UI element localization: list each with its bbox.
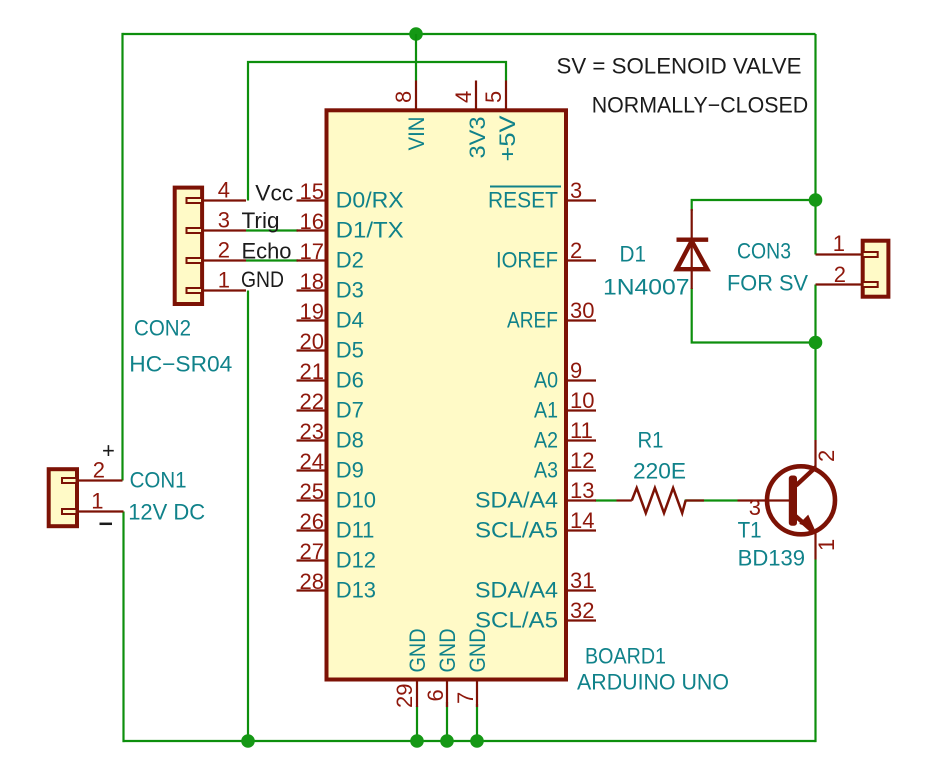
pin contact rectangle CON1 pin 1 [62,509,77,514]
svg-text:BOARD1: BOARD1 [585,644,666,669]
connector CON3 body rectangle [863,241,889,297]
svg-text:IOREF: IOREF [496,248,558,273]
svg-text:13: 13 [570,478,594,503]
transistor T1 base lead [738,499,790,501]
pin contact rectangle CON2 pin 3 [187,228,203,233]
pin contact rectangle CON2 pin 4 [187,198,203,203]
pin 32 (SCL/A5) stub right side [566,619,596,621]
svg-text:D0/RX: D0/RX [336,188,404,213]
pin 5 (+5V) stub top side [505,81,507,111]
svg-text:D2: D2 [336,248,364,273]
svg-text:2: 2 [570,238,582,263]
svg-text:SDA/A4: SDA/A4 [475,578,558,603]
svg-text:3: 3 [749,495,761,520]
svg-text:1N4007: 1N4007 [603,275,690,300]
svg-text:18: 18 [300,269,324,294]
svg-text:GND: GND [405,629,430,673]
svg-text:D8: D8 [336,428,364,453]
pin 29 (GND) stub bottom side [416,680,418,708]
svg-text:CON2: CON2 [134,316,191,341]
svg-text:GND: GND [241,267,284,292]
svg-text:28: 28 [300,569,324,594]
svg-text:2: 2 [218,238,230,263]
pin 3 stub of CON2 [202,229,246,231]
pin 4 stub of CON2 [202,199,246,201]
svg-text:D1: D1 [620,242,647,267]
svg-text:1: 1 [91,489,103,514]
wire Echo link (CON2 pin 2 to D2 pin 17) [246,259,298,261]
svg-text:BD139: BD139 [738,546,806,571]
diode D1 triangle outline [677,241,707,269]
svg-text:GND: GND [435,629,460,673]
wire VIN riser (top bus junction down to pin 8) [415,34,417,81]
svg-text:D13: D13 [336,578,376,603]
svg-text:D12: D12 [336,548,376,573]
svg-text:24: 24 [300,449,324,474]
svg-text:Echo: Echo [242,239,292,264]
node junction at VIN riser on top wire [409,27,423,41]
wire diode bottom link to right rail [692,288,816,343]
svg-text:HC−SR04: HC−SR04 [129,352,232,377]
svg-text:22: 22 [300,389,324,414]
pin 2 stub of CON2 [202,259,246,261]
op-amp/IC body BOARD1 Arduino Uno rectangle [327,110,567,679]
svg-text:GND: GND [465,629,490,673]
svg-text:23: 23 [300,419,324,444]
svg-text:Trig: Trig [242,208,280,233]
pin 20 (D5) stub left side [297,349,327,351]
resistor R1 left lead [617,499,632,501]
svg-text:D4: D4 [336,308,364,333]
svg-text:220E: 220E [633,459,686,484]
pin contact rectangle CON1 pin 2 [62,478,77,483]
svg-text:4: 4 [218,178,230,203]
wire +5V feed from CON2 Vcc up and over to pin 5 [248,62,506,201]
pin 7 (GND) stub bottom side [476,680,478,708]
svg-text:3V3: 3V3 [465,117,490,159]
svg-text:D3: D3 [336,278,364,303]
svg-text:D9: D9 [336,458,364,483]
svg-text:26: 26 [300,509,324,534]
pin 30 (AREF) stub right side [566,319,596,321]
svg-text:3: 3 [570,178,582,203]
svg-text:CON1: CON1 [130,468,187,493]
node junction CON2 GND at ground bus [241,734,255,748]
svg-text:11: 11 [570,418,593,443]
svg-text:AREF: AREF [507,308,558,333]
transistor T1 collector diagonal [796,467,816,486]
node junction diode top at right rail [809,193,823,207]
wire GND pin 7 drop to ground bus [476,704,478,742]
svg-text:D11: D11 [336,518,375,543]
pin contact rectangle CON3 pin 1 [863,252,878,257]
polarity minus sign [100,523,113,526]
svg-text:SDA/A4: SDA/A4 [475,488,558,513]
pin 10 (A1) stub right side [566,409,596,411]
svg-text:3: 3 [218,208,230,233]
pin 1 stub of CON3 [816,253,862,255]
svg-text:D10: D10 [336,488,376,513]
svg-text:15: 15 [300,179,324,204]
wire GND pin 29 drop to ground bus [416,706,418,742]
svg-text:7: 7 [453,692,478,704]
wire diode top link from right rail to diode cathode [692,200,816,211]
svg-text:20: 20 [300,329,324,354]
pin 25 (D10) stub left side [297,499,327,501]
wire GND pin 6 drop to ground bus [446,702,448,742]
node junction GND pin 6 on ground bus [440,734,454,748]
resistor R1 right lead [686,499,704,501]
wire bottom ground bus [123,740,816,742]
pin 18 (D3) stub left side [297,289,327,291]
svg-text:25: 25 [300,479,324,504]
svg-text:ARDUINO UNO: ARDUINO UNO [577,670,729,695]
diode D1 anode lead vertical [691,209,693,289]
svg-text:SCL/A5: SCL/A5 [475,518,558,543]
wire pin 13 SDA/A4 to resistor R1 [595,499,617,501]
pin 4 (3V3) stub top side [475,81,477,111]
transistor T1 emitter lead vertical [814,532,816,560]
svg-text:1: 1 [814,539,839,551]
svg-text:14: 14 [570,508,594,533]
svg-text:RESET: RESET [488,188,558,213]
pin 17 (D2) stub left side [297,259,327,261]
svg-text:Vcc: Vcc [255,181,293,206]
wire right rail lower (transistor emitter down to ground bus) [814,560,816,743]
svg-text:4: 4 [451,91,476,103]
pin 3 (RESET) stub right side [566,199,596,201]
wire resistor R1 to transistor base [685,499,738,501]
pin 22 (D7) stub left side [297,409,327,411]
svg-text:1: 1 [833,231,845,256]
svg-text:FOR SV: FOR SV [727,271,808,296]
transistor T1 base bar [789,476,797,526]
svg-text:10: 10 [570,388,594,413]
transistor T1 emitter diagonal [796,516,815,533]
wire left rail lower segment (CON1 pin 1 down to ground bus) [122,512,124,743]
svg-text:6: 6 [423,689,448,701]
pin 13 (SDA/A4) stub right side [566,499,596,501]
overline bar above RESET pin name [490,186,561,188]
svg-text:31: 31 [570,568,594,593]
wire left rail upper segment (top wire down to CON1 pin 2) [121,33,123,481]
svg-text:+: + [102,438,115,463]
svg-text:21: 21 [300,359,324,384]
svg-text:19: 19 [300,299,324,324]
svg-text:A1: A1 [534,398,558,423]
svg-text:8: 8 [391,91,416,103]
svg-text:12: 12 [570,448,594,473]
pin 16 (D1/TX) stub left side [297,229,327,231]
pin 19 (D4) stub left side [297,319,327,321]
node junction diode bottom at right rail [809,336,823,350]
svg-text:2: 2 [834,262,846,287]
wire right rail mid (CON3 pin 2 down to transistor collector) [814,285,816,441]
connector CON1 body rectangle [49,469,77,526]
svg-text:30: 30 [570,298,594,323]
svg-text:2: 2 [814,450,839,462]
node junction GND pin 7 on ground bus [470,734,484,748]
svg-text:+5V: +5V [495,115,520,161]
svg-text:A0: A0 [534,368,558,393]
pin 1 stub of CON1 (-) [77,510,124,512]
pin 14 (SCL/A5) stub right side [566,529,596,531]
connector CON2 body rectangle [175,188,202,304]
transistor T1 emitter arrowhead [799,515,815,530]
svg-text:5: 5 [481,91,506,103]
node junction GND pin 29 on ground bus [410,734,424,748]
transistor T1 collector lead vertical [814,440,816,468]
pin 21 (D6) stub left side [297,379,327,381]
svg-text:SV = SOLENOID VALVE: SV = SOLENOID VALVE [557,54,802,79]
wire Trig link (CON2 pin 3 to D1/TX pin 16) [246,229,298,231]
svg-text:A3: A3 [534,458,558,483]
svg-text:9: 9 [570,358,582,383]
pin 12 (A3) stub right side [566,469,596,471]
svg-text:D6: D6 [336,368,364,393]
pin 9 (A0) stub right side [566,379,596,381]
svg-text:CON3: CON3 [737,239,791,264]
diode D1 cathode bar [677,237,709,241]
svg-text:D5: D5 [336,338,364,363]
transistor T1 circle outline [767,466,835,534]
pin 31 (SDA/A4) stub right side [566,589,596,591]
wire CON2 GND drop down to ground bus [247,291,249,743]
svg-text:32: 32 [570,598,594,623]
pin 28 (D13) stub left side [297,589,327,591]
svg-text:A2: A2 [534,428,558,453]
svg-text:29: 29 [392,684,417,709]
pin 1 stub of CON2 [202,289,246,291]
pin 24 (D9) stub left side [297,469,327,471]
pin 2 (IOREF) stub right side [566,259,596,261]
pin 23 (D8) stub left side [297,439,327,441]
pin 15 (D0/RX) stub left side [297,199,327,201]
pin contact rectangle CON2 pin 1 [187,288,203,293]
pin contact rectangle CON2 pin 2 [187,258,203,263]
svg-text:1: 1 [218,268,230,293]
svg-text:D1/TX: D1/TX [336,218,404,243]
svg-text:12V DC: 12V DC [128,500,205,525]
pin contact rectangle CON3 pin 2 [863,282,878,287]
svg-text:D7: D7 [336,398,364,423]
resistor R1 zigzag body [632,488,686,513]
pin 11 (A2) stub right side [566,439,596,441]
svg-text:VIN: VIN [404,117,429,151]
pin 26 (D11) stub left side [297,529,327,531]
pin 2 stub of CON1 (+) [77,479,123,481]
svg-text:T1: T1 [738,518,762,543]
svg-text:16: 16 [300,209,324,234]
pin 27 (D12) stub left side [297,559,327,561]
svg-text:27: 27 [300,539,324,564]
pin 8 (VIN) stub top side [415,81,417,111]
svg-text:NORMALLY−CLOSED: NORMALLY−CLOSED [592,93,809,118]
wire right rail upper (top wire down to CON3 pin 1) [814,34,816,255]
wire top horizontal bus from left rail to right rail [123,33,816,35]
svg-text:17: 17 [300,239,324,264]
pin 6 (GND) stub bottom side [446,680,448,708]
svg-text:R1: R1 [638,428,664,453]
pin 2 stub of CON3 [816,283,862,285]
